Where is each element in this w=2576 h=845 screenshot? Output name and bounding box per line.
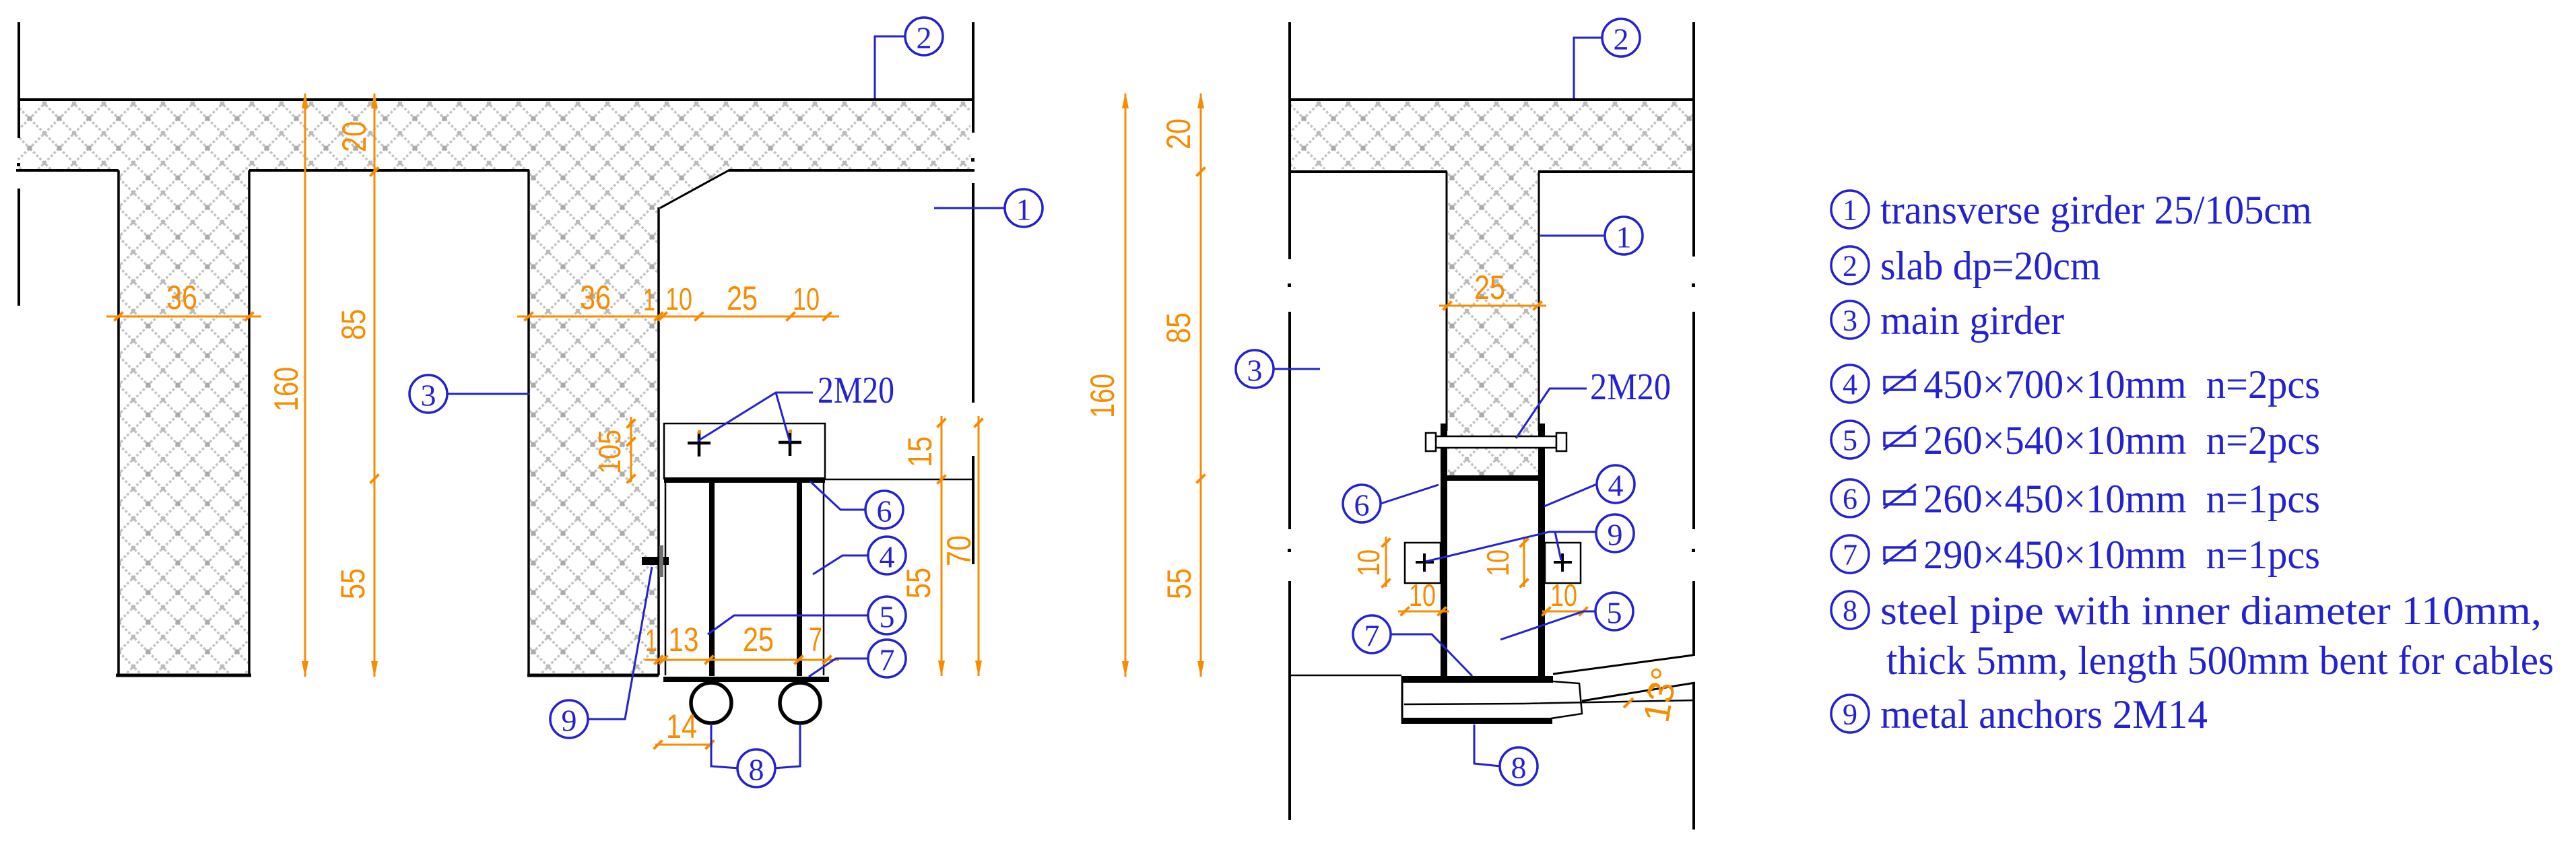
leader to top flange plate (right view)	[1381, 485, 1439, 504]
svg-text:7: 7	[1364, 619, 1380, 653]
svg-text:10: 10	[1409, 578, 1436, 613]
svg-text:6: 6	[877, 494, 892, 529]
transverse girder bottom edge (elevation)	[825, 479, 972, 481]
svg-text:260×450×10mm n=1pcs: 260×450×10mm n=1pcs	[1923, 477, 2320, 521]
leader to main girder (right view)	[1274, 368, 1320, 370]
balloon 2 slab	[905, 18, 943, 55]
svg-text:15: 15	[901, 436, 939, 467]
transverse girder bottom / bracket top	[1441, 475, 1545, 481]
leader to transverse girder	[934, 207, 1005, 209]
steel pipe left (item 8)	[691, 683, 731, 723]
balloon 3 main girder (right view)	[1236, 350, 1274, 388]
leader to metal anchor	[588, 567, 652, 719]
svg-text:10: 10	[665, 281, 692, 316]
bottom plate assembly top bar (item 7)	[1401, 676, 1553, 683]
concrete hatch: slab band and transverse girder (right view)	[1291, 101, 1692, 475]
svg-text:7: 7	[1843, 539, 1857, 572]
right break line middle	[1692, 312, 1695, 529]
balloon 1 transverse girder (right view)	[1605, 217, 1643, 255]
svg-text:450×700×10mm n=2pcs: 450×700×10mm n=2pcs	[1923, 362, 2320, 407]
svg-text:85: 85	[335, 309, 372, 340]
svg-text:9: 9	[1843, 698, 1857, 731]
svg-text:2M20: 2M20	[818, 370, 894, 411]
slab left break dot	[17, 163, 20, 166]
svg-text:8: 8	[1843, 595, 1857, 628]
svg-text:36: 36	[580, 279, 611, 316]
metal anchor 2M14 (item 9) shank	[659, 545, 663, 577]
slab bottom edge left	[1290, 170, 1447, 173]
concrete hatch: slab band, girders, haunch (left view)	[18, 101, 970, 673]
bolt bar 2M20 through girder	[1436, 436, 1556, 448]
steel pipe right (item 8)	[780, 683, 820, 723]
bolt 2M20 left cross	[698, 432, 701, 457]
pipe lower edge line	[1404, 700, 1695, 704]
bent pipe upper line (13 deg)	[1553, 655, 1693, 674]
anchor cross right	[1561, 553, 1564, 572]
right break line upper	[1692, 22, 1695, 257]
svg-text:105: 105	[592, 430, 627, 474]
right break dot upper	[1692, 283, 1695, 287]
balloon 8 steel pipe	[737, 749, 775, 787]
svg-text:6: 6	[1354, 488, 1370, 522]
balloon 6 (right view)	[1343, 485, 1381, 522]
left girder left edge	[117, 170, 120, 675]
svg-text:13: 13	[669, 621, 699, 658]
svg-text:steel pipe with inner diameter: steel pipe with inner diameter 110mm,	[1880, 588, 2542, 633]
legend item 4	[1831, 365, 1869, 403]
leader 2M20 bolts	[698, 393, 813, 441]
transverse girder end break line lower	[972, 456, 975, 564]
svg-text:4: 4	[1608, 469, 1624, 503]
right break line lower a	[1692, 581, 1695, 656]
slab top edge (right view)	[1290, 98, 1694, 101]
legend item 2	[1831, 246, 1869, 284]
bolt head left	[1426, 433, 1436, 451]
metal anchor plate right (item 9)	[1545, 543, 1581, 583]
balloon 6 plate 260x450	[865, 491, 903, 529]
svg-text:70: 70	[940, 535, 978, 566]
balloon 5 (right view)	[1595, 593, 1633, 630]
transverse girder right edge	[1538, 172, 1540, 431]
leader to bottom plate (right view)	[1391, 634, 1472, 676]
svg-text:4: 4	[880, 540, 895, 574]
svg-text:2M20: 2M20	[1590, 366, 1671, 408]
left break dot upper	[1288, 283, 1291, 287]
dimension 10 anchor height left	[1385, 537, 1387, 587]
svg-text:8: 8	[749, 753, 764, 787]
leader to side plate (right view)	[1544, 484, 1597, 506]
svg-text:14: 14	[666, 708, 697, 745]
haunch chamfer line	[660, 170, 730, 208]
right break dot lower	[1692, 549, 1695, 552]
svg-text:slab dp=20cm: slab dp=20cm	[1880, 244, 2101, 288]
leader to steel pipes	[711, 724, 739, 768]
svg-text:transverse girder 25/105cm: transverse girder 25/105cm	[1880, 188, 2312, 232]
dimension 10 anchor width left	[1398, 611, 1449, 613]
svg-text:metal anchors 2M14: metal anchors 2M14	[1880, 692, 2208, 737]
svg-text:2: 2	[1614, 22, 1629, 57]
svg-text:1: 1	[1016, 193, 1032, 227]
plate assembly top plate 450x700 (item 4 face)	[664, 424, 825, 479]
leader to anchors (right view)	[1426, 532, 1596, 562]
leader to bottom plate	[809, 658, 868, 677]
dimension line 20-85-55	[374, 94, 376, 677]
bracket left side plate edge	[665, 482, 667, 675]
left break dot lower	[1288, 549, 1291, 552]
transverse girder break dot	[971, 158, 975, 162]
legend item 1	[1831, 191, 1869, 228]
svg-text:55: 55	[1160, 568, 1198, 599]
slab bottom edge middle segment	[249, 169, 529, 172]
balloon 2 slab (right view)	[1602, 19, 1640, 57]
leader to transverse girder (right view)	[1540, 235, 1605, 237]
bolt 2M20 right cross	[789, 431, 792, 456]
svg-text:55: 55	[334, 568, 372, 599]
side plate left edge-on (item 4)	[1441, 424, 1447, 677]
svg-text:160: 160	[267, 367, 305, 411]
svg-text:4: 4	[1843, 368, 1857, 401]
dimension line 20-85-55 (right view)	[1200, 94, 1202, 677]
svg-text:7: 7	[880, 643, 895, 677]
slab left break line lower	[18, 189, 20, 306]
angle 13 degrees	[1624, 698, 1633, 708]
svg-text:7: 7	[809, 621, 822, 658]
bracket web plate left (item 5)	[709, 482, 715, 676]
legend item 6	[1831, 479, 1869, 517]
dimension 105 (plate bolt offsets)	[630, 417, 632, 482]
svg-text:260×540×10mm n=2pcs: 260×540×10mm n=2pcs	[1923, 418, 2320, 463]
bracket top flange plate edge (item 6)	[664, 477, 825, 483]
leader to top flange plate	[810, 481, 865, 510]
dimension 70 (bracket total height)	[978, 416, 980, 676]
bracket right side plate edge	[823, 482, 825, 675]
svg-text:1: 1	[1843, 194, 1857, 227]
main girder bottom line (elevation)	[1290, 675, 1401, 677]
main girder left edge	[527, 170, 530, 675]
balloon 4 (right view)	[1597, 465, 1634, 503]
dimension 36 (left girder width)	[106, 316, 261, 318]
svg-text:10: 10	[1550, 578, 1577, 613]
slab left break line upper	[18, 22, 20, 138]
leader to slab	[875, 36, 905, 98]
side plate right edge-on (item 4)	[1538, 424, 1545, 677]
slab bottom edge right	[1538, 170, 1694, 173]
leader 2M20 (right view)	[1516, 388, 1587, 438]
dimension line 15-55 (right of bracket)	[941, 416, 943, 676]
svg-text:10: 10	[793, 281, 820, 316]
leader to slab (right view)	[1574, 38, 1602, 98]
legend item 9	[1831, 695, 1869, 733]
legend item 3	[1831, 301, 1869, 339]
svg-text:160: 160	[1084, 374, 1121, 418]
svg-text:5: 5	[1843, 424, 1857, 457]
dimension 25 (girder width)	[1439, 305, 1546, 307]
balloon 4 plate 450x700	[868, 537, 906, 574]
svg-text:3: 3	[1843, 304, 1857, 337]
legend item 7	[1831, 535, 1869, 573]
svg-text:thick 5mm, length 500mm bent f: thick 5mm, length 500mm bent for cables	[1886, 638, 2554, 683]
svg-text:1: 1	[1616, 220, 1632, 255]
balloon 7 (right view)	[1353, 615, 1391, 653]
slab bottom edge left segment	[16, 169, 119, 172]
svg-text:10: 10	[1480, 549, 1515, 576]
svg-text:2: 2	[1843, 250, 1857, 283]
dimension 10 anchor height right	[1523, 537, 1525, 587]
svg-text:25: 25	[1474, 269, 1505, 306]
svg-text:2: 2	[917, 21, 932, 55]
pipe taper outline	[1551, 681, 1582, 718]
dimension 10 anchor width right	[1542, 611, 1593, 613]
leader to web plate (right view)	[1500, 611, 1595, 640]
svg-text:20: 20	[335, 121, 373, 152]
anchor cross left	[1423, 553, 1426, 572]
dimension chain 1-13-25-7 (bracket plates)	[645, 659, 839, 661]
balloon 9 metal anchors	[550, 700, 588, 738]
svg-text:25: 25	[743, 621, 774, 658]
slab bottom edge right segment	[729, 169, 975, 172]
legend item 8	[1831, 591, 1869, 629]
transverse girder left edge	[1446, 172, 1448, 431]
bracket bottom plate (item 7)	[663, 677, 829, 682]
balloon 5 plate 260x540	[868, 597, 906, 634]
svg-text:9: 9	[1608, 518, 1623, 552]
main girder right edge	[657, 207, 660, 675]
bottom assembly bottom bar	[1401, 718, 1552, 724]
svg-text:55: 55	[900, 568, 937, 599]
left break line upper (right view)	[1288, 22, 1291, 259]
svg-text:10: 10	[1351, 549, 1386, 576]
svg-text:36: 36	[166, 279, 197, 316]
balloon 8 (right view)	[1500, 747, 1538, 785]
bracket web plate right (item 5)	[797, 482, 802, 676]
leader to web plate	[708, 615, 868, 634]
dimension 160 (right view)	[1125, 94, 1127, 677]
metal anchor plate left (item 9)	[1405, 543, 1441, 583]
transverse girder end break line upper	[972, 22, 975, 133]
left girder bottom edge	[116, 674, 251, 677]
balloon 1 transverse girder	[1005, 189, 1043, 227]
svg-text:8: 8	[1511, 751, 1527, 785]
legend item 5	[1831, 421, 1869, 459]
leader to main girder	[447, 393, 529, 395]
svg-text:3: 3	[421, 378, 436, 413]
leader to side plate	[813, 555, 868, 574]
svg-text:6: 6	[1843, 483, 1857, 516]
balloon 7 plate 290x450	[868, 640, 906, 677]
dimension 14 (pipe offset)	[655, 744, 713, 746]
transverse girder end break line middle	[972, 183, 975, 403]
left girder right edge	[248, 170, 251, 675]
svg-text:1: 1	[643, 282, 655, 317]
svg-text:3: 3	[1247, 353, 1263, 388]
svg-text:9: 9	[562, 704, 577, 738]
svg-text:20: 20	[1160, 119, 1197, 149]
bolt head right	[1556, 433, 1566, 451]
main girder bottom edge	[527, 674, 659, 677]
left break line lower	[1288, 581, 1291, 820]
svg-text:5: 5	[880, 600, 895, 634]
balloon 9 (right view)	[1596, 514, 1634, 552]
leader to pipe (right view)	[1474, 724, 1500, 766]
svg-text:main girder: main girder	[1880, 298, 2064, 343]
svg-text:85: 85	[1160, 312, 1197, 343]
svg-text:25: 25	[727, 279, 758, 317]
svg-text:1: 1	[645, 623, 657, 658]
balloon 3 main girder	[409, 375, 447, 413]
right break line lower b	[1692, 683, 1695, 830]
left break line middle	[1288, 312, 1291, 529]
bottom assembly left cap	[1401, 676, 1403, 724]
metal anchor 2M14 (item 9) bar	[642, 557, 669, 565]
dimension chain 36-1-10-25-10 (main girder / plates)	[517, 316, 839, 318]
svg-text:5: 5	[1607, 596, 1622, 630]
dimension 160 (girder total depth)	[304, 94, 306, 677]
svg-text:290×450×10mm n=1pcs: 290×450×10mm n=1pcs	[1923, 533, 2320, 577]
bent pipe lower line (13 deg)	[1582, 683, 1695, 701]
slab top edge (left view)	[19, 98, 972, 101]
